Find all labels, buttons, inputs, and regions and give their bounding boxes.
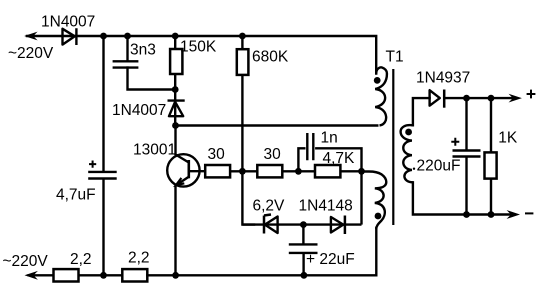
node: bottom rail / left rail junction: [100, 272, 107, 279]
node: 3n3 top junction: [124, 33, 131, 40]
svg-text:2,2: 2,2: [70, 251, 92, 268]
wire: R3 to R4: [230, 170, 257, 172]
node: 1K - junction: [488, 211, 495, 218]
svg-text:680K: 680K: [252, 49, 289, 66]
resistor R6 2,2: [54, 269, 79, 281]
node: 1n / 4,7K left junction: [295, 168, 302, 175]
svg-text:30: 30: [264, 146, 282, 163]
diode D4 1N4148 (anode left): [331, 216, 345, 235]
wire: collector line from D2/Q1 to primary bottom: [176, 124, 379, 126]
resistor R5 4,7K: [315, 165, 340, 177]
wire: 4,7K to feedback node: [340, 170, 361, 172]
terminal arrow: - output: [507, 210, 520, 219]
svg-text:1N4937: 1N4937: [416, 69, 470, 86]
transformer T1 primary winding: [375, 67, 387, 125]
diode D5 1N4937: [430, 90, 445, 108]
wire: bottom rail between 2,2 resistors: [79, 274, 123, 276]
svg-text:~220V: ~220V: [3, 253, 49, 270]
node: 22uF / bottom rail junction: [301, 272, 308, 279]
transformer T1 core: [392, 69, 394, 225]
wire: 1n left lead: [298, 148, 304, 171]
node: 680K top junction: [239, 33, 246, 40]
wire: secondary bottom to - line: [413, 182, 512, 214]
wire: R4 to 4,7K: [282, 170, 315, 172]
svg-text:1N4007: 1N4007: [41, 13, 95, 30]
capacitor C4 22uF: [289, 244, 318, 253]
svg-text:150K: 150K: [180, 39, 217, 56]
phase dot: feedback: [375, 213, 382, 220]
capacitor C5 220uF electrolytic: [451, 138, 480, 157]
speck before 220uF: [413, 168, 415, 170]
svg-text:4,7K: 4,7K: [323, 150, 356, 167]
node: + rail / filter cap junction: [100, 33, 107, 40]
wire: 22uF bottom lead: [302, 253, 304, 275]
svg-text:30: 30: [208, 146, 226, 163]
node: feedback winding junction: [358, 168, 365, 175]
svg-text:13001: 13001: [133, 141, 176, 158]
resistor R1 150K: [170, 36, 182, 90]
terminal arrow: ~220V bottom lead: [25, 271, 38, 280]
label + (output): [527, 90, 536, 99]
zener diode VD3 6,2V (cathode left): [264, 215, 278, 234]
diode D1 1N4007 (series mains): [63, 28, 77, 45]
resistor R7 2,2: [122, 269, 147, 281]
node: snubber junction (150K/3n3/D2): [172, 86, 179, 93]
capacitor C1 4,7uF electrolytic: [88, 161, 117, 179]
wire: zener branch left drop: [242, 171, 254, 224]
wire: base lead: [189, 170, 205, 172]
phase dot: primary: [374, 77, 381, 84]
node: 220uF - junction: [463, 211, 470, 218]
transformer T1 feedback winding: [362, 172, 387, 230]
node: zener / 1N4148 / 22uF junction: [300, 221, 307, 228]
wire: top rail from input arrow to T1 primary top: [27, 36, 376, 74]
capacitor C2 3n3: [113, 61, 139, 67]
svg-text:1n: 1n: [321, 129, 338, 146]
node: 150K top junction: [172, 33, 179, 40]
svg-text:~220V: ~220V: [8, 45, 54, 62]
svg-text:1N4007: 1N4007: [112, 102, 166, 119]
wire: zener loop horizontal: [242, 223, 361, 225]
wire: zener loop right riser: [360, 171, 362, 224]
node: collector junction: [172, 122, 179, 129]
label - (output): [525, 212, 533, 214]
svg-text:1K: 1K: [498, 129, 518, 146]
resistor R8 1K: [485, 98, 497, 214]
svg-text:4,7uF: 4,7uF: [56, 186, 96, 203]
svg-text:220uF: 220uF: [417, 157, 461, 174]
resistor R4 30: [257, 165, 282, 177]
wire: left rail down to 4,7uF top plate: [102, 36, 104, 171]
svg-text:3n3: 3n3: [130, 41, 156, 58]
node: base network / 680K / zener junction: [239, 168, 246, 175]
svg-text:+ 22uF: + 22uF: [306, 251, 355, 268]
transistor Q1 13001 (NPN, mirrored): [167, 126, 199, 276]
wire: left rail below 4,7uF to bottom rail: [102, 179, 104, 276]
resistor R3 30 (base): [205, 165, 230, 177]
wire: 22uF top lead: [302, 225, 304, 245]
node: emitter / bottom rail junction: [172, 272, 179, 279]
terminal arrow: + output: [509, 94, 522, 103]
node: 220uF + junction: [463, 95, 470, 102]
svg-text:1N4148: 1N4148: [299, 197, 353, 214]
wire: bottom rail to feedback winding: [147, 228, 376, 275]
svg-text:6,2V: 6,2V: [253, 197, 286, 214]
phase dot: secondary: [405, 129, 412, 136]
wire: 220uF top lead: [465, 98, 467, 150]
node: 1K + junction: [488, 95, 495, 102]
wire: + output line: [444, 97, 513, 99]
capacitor C3 1n: [307, 133, 313, 160]
wire: secondary top to rectifier: [413, 98, 430, 125]
terminal arrow: ~220V top lead: [24, 32, 37, 41]
wire: bottom rail left segment: [28, 274, 54, 276]
resistor R2 680K (startup): [237, 36, 249, 171]
diode D2 1N4007 (clamp, cathode up): [168, 90, 185, 126]
svg-text:T1: T1: [386, 48, 404, 65]
wire: 3n3 top lead: [126, 36, 128, 61]
transformer T1 secondary winding: [401, 125, 413, 182]
svg-text:2,2: 2,2: [128, 249, 150, 266]
wire: 1n right lead: [316, 148, 361, 171]
wire: 220uF bottom lead: [465, 157, 467, 215]
wire: 3n3 bottom lead to snubber node: [128, 68, 176, 90]
